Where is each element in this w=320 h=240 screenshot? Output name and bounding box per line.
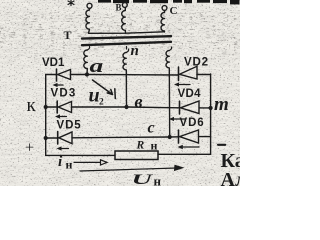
svg-text:2: 2: [99, 98, 104, 108]
svg-text:u: u: [89, 85, 100, 107]
svg-text:a: a: [90, 56, 104, 77]
svg-text:VD1: VD1: [42, 57, 65, 69]
svg-text:VD2: VD2: [184, 57, 209, 69]
svg-text:VD3: VD3: [51, 88, 77, 100]
svg-text:VD6: VD6: [180, 117, 205, 129]
svg-text:н: н: [151, 139, 158, 153]
svg-text:к: к: [27, 95, 37, 116]
svg-text:н: н: [154, 174, 162, 187]
svg-text:Ал: Ал: [221, 169, 241, 186]
svg-text:н: н: [66, 158, 73, 172]
svg-text:n: n: [131, 43, 139, 59]
svg-text:U: U: [132, 171, 155, 186]
svg-text:VD5: VD5: [57, 120, 82, 132]
svg-text:Т: Т: [64, 28, 72, 42]
svg-text:c: c: [148, 120, 155, 137]
svg-text:R: R: [136, 140, 145, 152]
svg-text:в: в: [135, 92, 143, 112]
svg-text:VD4: VD4: [178, 88, 202, 100]
svg-text:m: m: [214, 94, 229, 115]
svg-text:+: +: [25, 140, 34, 157]
svg-text:С: С: [170, 5, 178, 17]
svg-text:В: В: [116, 3, 122, 13]
